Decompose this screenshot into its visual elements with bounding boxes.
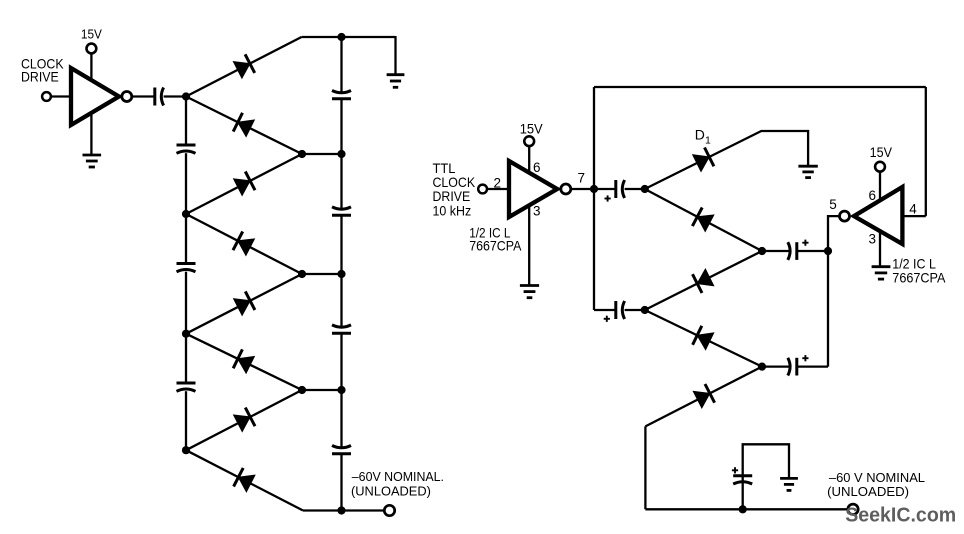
wire node B to C6 [340, 154, 342, 209]
wire U2 output to node H [571, 188, 594, 190]
wire 15V to U3 [879, 172, 881, 201]
wire C1 to node A [164, 95, 186, 97]
U1 output bubble [122, 92, 132, 102]
node K junction [758, 247, 766, 255]
capacitor C11 [788, 242, 797, 260]
capacitor C5 (right rail) [332, 91, 351, 99]
ground (D1 branch) [798, 166, 817, 177]
wire link node B [302, 153, 342, 155]
wire C2 to node C [185, 153, 187, 214]
ground (output filter) [780, 478, 798, 490]
wire C12 to rail corner [797, 365, 828, 367]
capacitor C8 (right rail) [332, 446, 351, 454]
wire C11 to node L [797, 250, 828, 252]
wire node M to C12 [762, 365, 790, 367]
node B junction (rail) [337, 150, 345, 158]
wire node H to C9 [594, 188, 616, 190]
plus label C13 [732, 467, 738, 473]
ground (top right of left ladder) [387, 75, 405, 88]
output terminal (right) [848, 504, 858, 514]
wire C10 to node J [625, 309, 645, 311]
pin 2 label (U2) [493, 175, 501, 190]
wire node J to node M diagonal [645, 310, 762, 367]
plus label C9 [605, 195, 611, 201]
U2 output bubble [561, 184, 571, 194]
wire C4 to node G [185, 391, 187, 450]
pin 3 label (U3) [869, 232, 877, 247]
wire C9 to node I [625, 188, 645, 190]
wire C13 top bracket [743, 444, 789, 478]
input terminal (TTL clock) [478, 185, 487, 194]
label 1/2 IC L 7667CPA (U3) [892, 256, 946, 286]
wire link node F [302, 389, 342, 391]
diode D5 [234, 291, 255, 315]
wire node E to C4 [185, 334, 187, 383]
diode D1 (left ladder top) [233, 54, 254, 78]
input terminal (left clock input) [42, 92, 51, 101]
svg-text:7667CPA: 7667CPA [469, 237, 522, 253]
plus label C12 [802, 355, 808, 361]
capacitor C12 [788, 358, 797, 376]
svg-text:10 kHz: 10 kHz [433, 203, 472, 219]
label -60V NOMINAL (left) [351, 469, 444, 498]
diode D13 [693, 384, 714, 408]
supply label 15V (U2) [520, 122, 543, 137]
svg-text:–60V NOMINAL.: –60V NOMINAL. [352, 469, 444, 484]
wire 15V to U1 [90, 53, 92, 79]
wire bottom left vertical (right circuit) [644, 426, 646, 509]
svg-text:6: 6 [533, 160, 541, 175]
node J junction [641, 306, 649, 314]
svg-text:15V: 15V [81, 27, 102, 42]
supply label 15V (U1) [81, 27, 102, 42]
op-amp U3 inverter triangle (1/2 ICL7667CPA) [854, 187, 903, 244]
wire node L to U3 input bubble [828, 216, 840, 251]
wire top rail [302, 36, 396, 38]
pin 6 label (U3) [869, 188, 877, 203]
op-amp U2 inverter triangle (1/2 ICL7667CPA) [509, 161, 557, 217]
label D1 [695, 127, 711, 147]
wire C6 to node D [340, 215, 342, 274]
wire 15V to U2 [528, 146, 530, 172]
wire bottom output line (right) [645, 508, 848, 510]
wire node H down [593, 189, 595, 310]
diode D7 [234, 408, 255, 432]
wire to C10 [594, 309, 616, 311]
svg-text:3: 3 [869, 232, 877, 247]
svg-text:(UNLOADED): (UNLOADED) [351, 483, 431, 498]
label 1/2 IC L 7667CPA (U2) [469, 225, 522, 254]
diode D12 [693, 326, 714, 350]
wire node J to node K diagonal [645, 251, 762, 310]
pin 3 label (U2) [533, 203, 541, 218]
plus label C11 [802, 240, 808, 246]
wire rail node L down to C12 row [827, 251, 829, 367]
wire C3 to node E [185, 272, 187, 334]
svg-text:(UNLOADED): (UNLOADED) [827, 484, 909, 499]
diode D3 [234, 172, 255, 196]
wire top feedback rail [594, 86, 926, 88]
node M junction [758, 363, 766, 371]
wire node C to node D diagonal [186, 214, 302, 274]
node H junction [590, 185, 598, 193]
output terminal (left) [384, 505, 394, 515]
wire C8 to output line [340, 454, 342, 511]
svg-text:–60 V NOMINAL: –60 V NOMINAL [829, 470, 925, 485]
label CLOCK DRIVE [21, 56, 64, 85]
wire node F to C8 [340, 390, 342, 447]
capacitor C4 (left rail) [177, 383, 196, 391]
node F zig junction [298, 386, 306, 394]
svg-text:3: 3 [533, 203, 541, 218]
node F junction (rail) [337, 386, 345, 394]
pin 5 label (U3) [829, 197, 837, 212]
wire U1 ground pin [90, 113, 92, 155]
pin 6 label (U2) [533, 160, 541, 175]
wire left rail node A to C2 [185, 97, 187, 146]
diode D2 [233, 113, 254, 137]
svg-text:15V: 15V [520, 122, 543, 137]
svg-text:DRIVE: DRIVE [21, 69, 59, 85]
wire input to U2 [487, 188, 508, 190]
watermark SeekIC.com [845, 505, 956, 527]
label TTL CLOCK DRIVE 10 kHz [433, 160, 476, 219]
capacitor C6 (right rail) [332, 207, 351, 215]
node D junction (rail) [337, 270, 345, 278]
wire link node D [302, 273, 342, 275]
wire feedback down to pin 4 [925, 87, 927, 216]
wire C7 to node F [340, 333, 342, 390]
label -60 V NOMINAL (right) [827, 470, 925, 499]
diode D11 [693, 269, 714, 293]
wire node G to output diagonal [186, 450, 303, 510]
supply label 15V (U3) [870, 145, 892, 160]
capacitor C7 (right rail) [332, 325, 351, 333]
node L junction [824, 247, 832, 255]
svg-text:6: 6 [869, 188, 877, 203]
svg-text:5: 5 [829, 197, 837, 212]
wire node M to bottom corner diagonal [645, 367, 762, 427]
node G junction [182, 446, 190, 454]
op-amp U1 inverter triangle [71, 68, 119, 125]
15V supply terminal (U3) [875, 162, 885, 172]
plus label C10 [604, 316, 610, 322]
capacitor C13 (output filter) [733, 476, 752, 484]
node C junction [182, 210, 190, 218]
wire output junction to C13 [742, 476, 744, 510]
svg-text:7667CPA: 7667CPA [892, 270, 946, 286]
ground (below U3) [872, 267, 891, 279]
wire U3 ground pin [879, 231, 881, 267]
svg-text:7: 7 [578, 170, 586, 185]
wire right rail top to C5 [340, 37, 342, 92]
node I junction [641, 185, 649, 193]
wire node D to node E diagonal [186, 274, 302, 334]
node B zig junction [298, 150, 306, 158]
wire node C to C3 [185, 214, 187, 264]
node A junction [182, 92, 190, 100]
ground (below U2) [520, 286, 539, 298]
wire output line (left) [303, 509, 385, 511]
svg-text:1: 1 [705, 135, 711, 147]
wire input to inverter U1 [51, 95, 71, 97]
wire C5 to node B [340, 99, 342, 154]
pin 4 label (U3) [909, 202, 917, 217]
node E junction [182, 330, 190, 338]
capacitor C3 (left rail) [177, 264, 196, 272]
capacitor C10 (lower pump cap) [616, 301, 625, 319]
wire node F to node G diagonal [186, 390, 302, 450]
wire to top ground [394, 36, 396, 75]
svg-text:D: D [695, 127, 705, 143]
wire node A to node B diagonal [186, 97, 302, 155]
15V supply terminal (U1) [87, 44, 97, 54]
svg-text:4: 4 [909, 202, 917, 217]
node D zig junction [298, 270, 306, 278]
wire node K to C11 [762, 250, 790, 252]
top rail junction [337, 33, 345, 41]
diode D8 [234, 468, 255, 492]
output junction (right) [739, 505, 747, 513]
wire node H up to top feedback rail [593, 87, 595, 189]
svg-text:SeekIC.com: SeekIC.com [845, 505, 956, 527]
diode D6 [233, 349, 254, 373]
15V supply terminal (U2) [524, 136, 534, 146]
wire pin 4 to U3 [902, 215, 925, 217]
pin 7 label (U2) [578, 170, 586, 185]
wire node I to node K diagonal [645, 189, 762, 251]
ground (below U1) [83, 155, 102, 167]
wire node E to node F diagonal [186, 334, 302, 390]
wire diagonal top (D1 branch to top rail) [186, 37, 302, 97]
wire node D to C7 [340, 274, 342, 327]
capacitor C1 (series) [155, 88, 164, 106]
wire U1 output to C1 [132, 95, 155, 97]
output junction (left) [337, 506, 345, 514]
wire U2 ground pin [528, 205, 530, 286]
diode D10 [692, 208, 713, 232]
svg-text:15V: 15V [870, 145, 892, 160]
wire node I to D9 ground branch [645, 131, 808, 189]
diode D4 [233, 232, 254, 256]
capacitor C2 (left rail) [177, 145, 196, 153]
wire node B to node C diagonal [186, 154, 302, 214]
U3 output bubble [840, 211, 850, 221]
capacitor C9 (upper pump cap) [616, 180, 625, 198]
diode D9 (D1) [693, 148, 714, 172]
